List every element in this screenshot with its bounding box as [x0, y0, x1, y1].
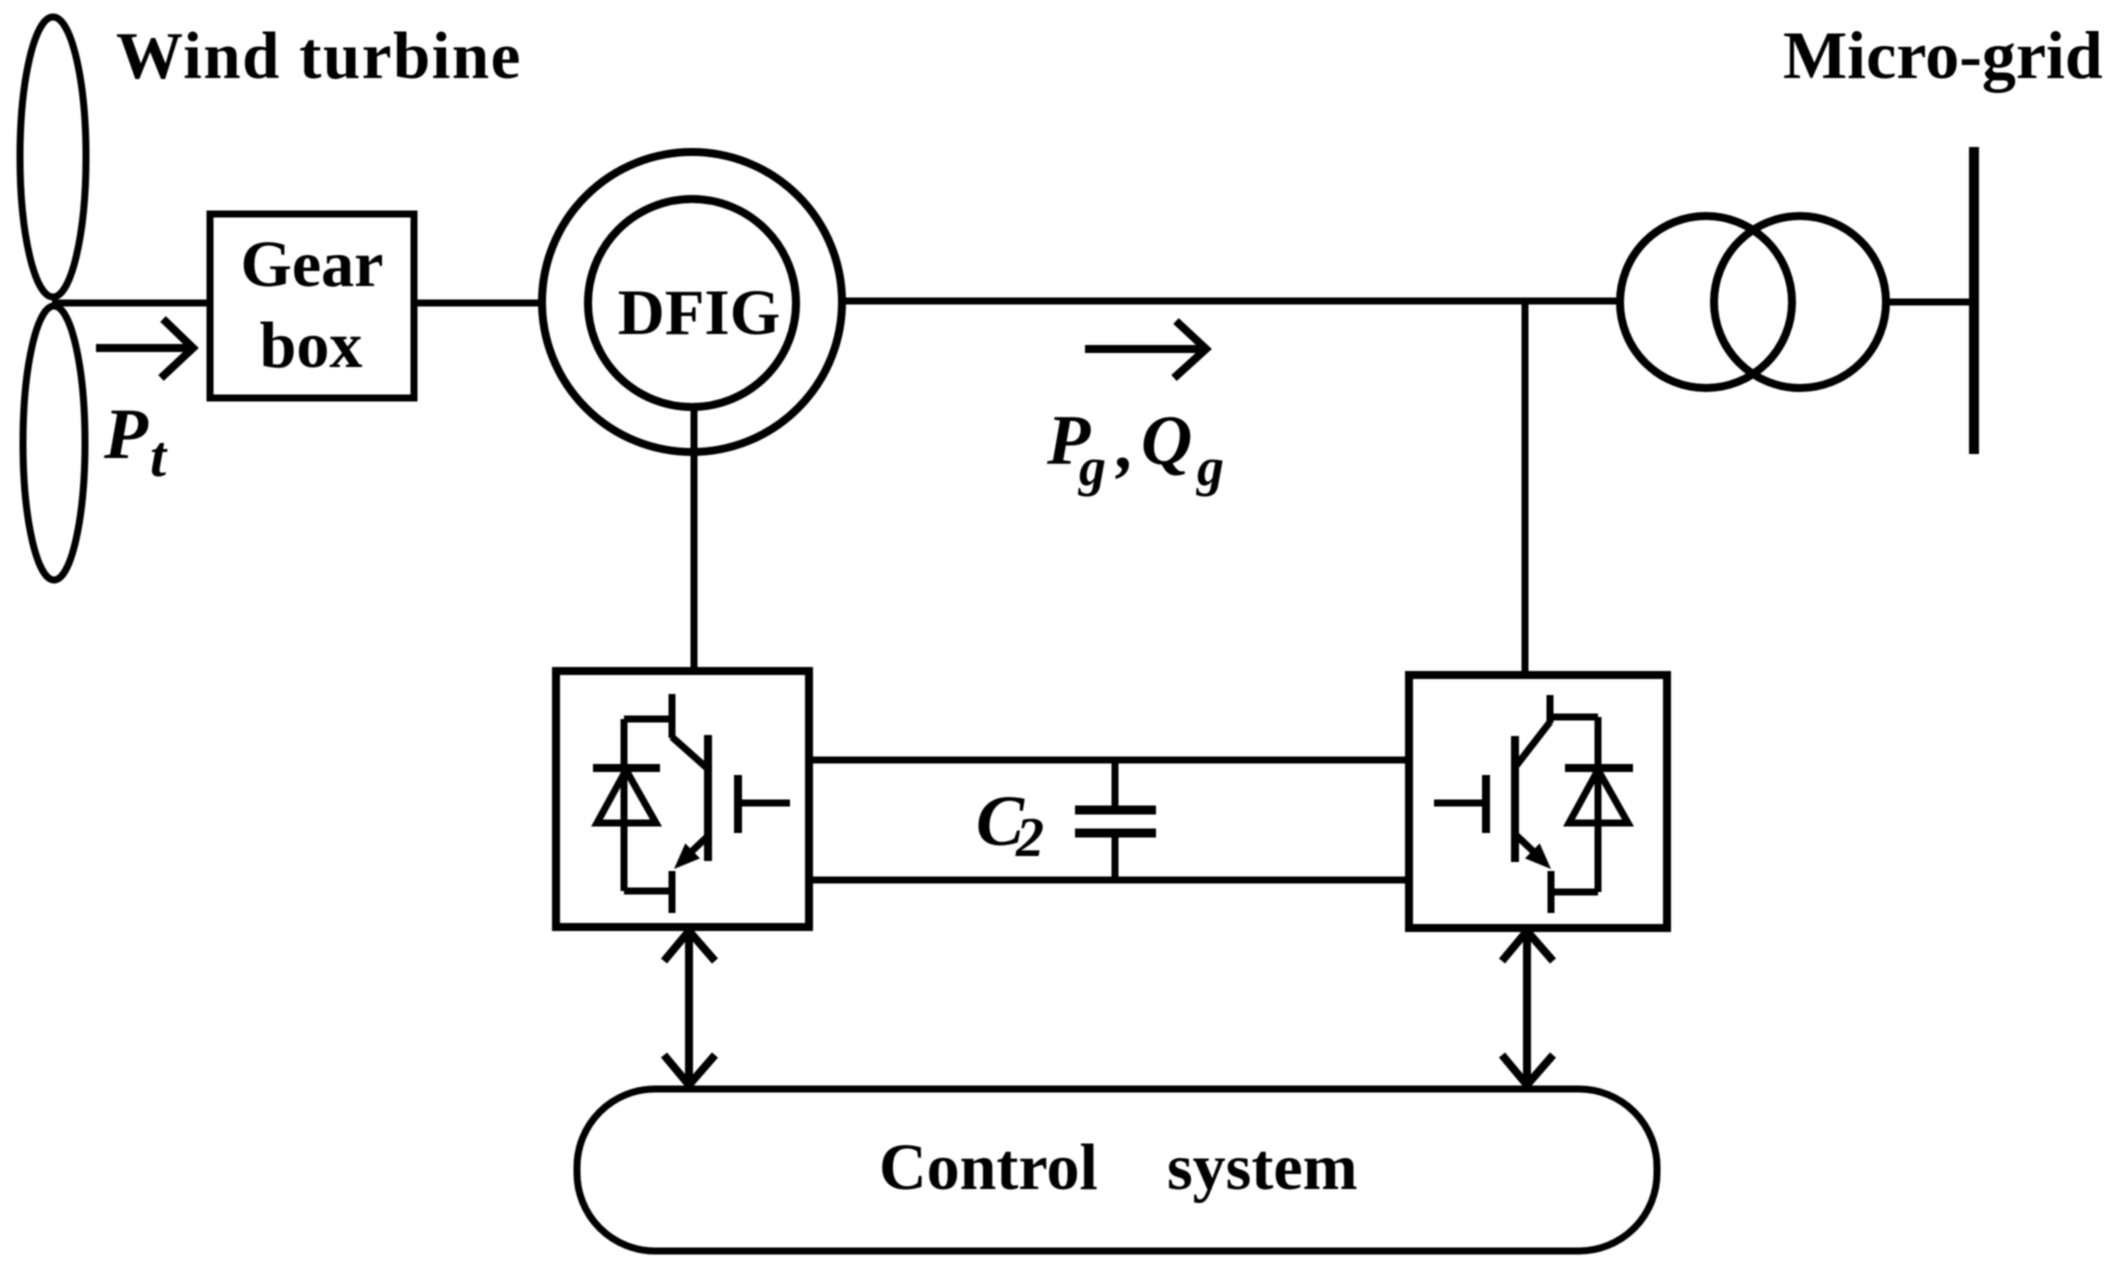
svg-text:system: system — [1167, 1131, 1358, 1204]
svg-text:Q: Q — [1141, 402, 1192, 480]
label Pg , Qg — [1046, 402, 1224, 497]
wire: transformer to micro-grid bus — [1886, 299, 1974, 306]
label C2 — [976, 781, 1044, 869]
DFIG stator outer circle — [542, 152, 842, 452]
U2 anti-parallel diode D2 — [1565, 768, 1633, 823]
svg-text:g: g — [1196, 437, 1224, 497]
svg-text:Micro-grid: Micro-grid — [1783, 17, 2103, 93]
shaft wire: gearbox to DFIG — [414, 300, 545, 307]
svg-text:,: , — [1115, 406, 1135, 484]
DC link top rail — [809, 757, 1409, 764]
label Gear box — [241, 228, 384, 382]
svg-text:Gear: Gear — [241, 228, 384, 301]
svg-text:g: g — [1078, 437, 1106, 497]
svg-text:box: box — [260, 309, 363, 382]
micro-grid bus bar — [1969, 147, 1979, 454]
svg-text:2: 2 — [1015, 807, 1044, 869]
rotor wire: DFIG down to rotor-side converter — [691, 407, 698, 674]
arrow Pt (wind power into gearbox) — [96, 319, 193, 378]
arrow Pg,Qg (power flow to grid) — [1085, 321, 1206, 378]
label Pt — [103, 394, 168, 489]
capacitor C2 — [1075, 760, 1156, 880]
wind turbine blade B2 (lower) — [23, 306, 85, 580]
U1 IGBT emitter arrowhead — [674, 843, 700, 869]
svg-text:Control: Control — [879, 1131, 1098, 1204]
shaft wire: turbine hub to gearbox — [52, 300, 210, 307]
svg-text:t: t — [150, 424, 168, 489]
U2 parallel loop wires — [1551, 717, 1598, 892]
wind turbine blade B1 (upper) — [20, 17, 86, 297]
svg-text:DFIG: DFIG — [618, 277, 781, 349]
transformer T1 primary circle — [1620, 216, 1792, 388]
DC link bottom rail — [809, 877, 1409, 884]
gearbox box — [210, 214, 414, 398]
stator wire: DFIG to transformer — [842, 298, 1624, 305]
U1 parallel loop wires — [624, 719, 672, 891]
U2 IGBT Q2 — [1434, 695, 1551, 913]
DFIG rotor inner circle — [588, 199, 796, 407]
control signal double arrow: U2 to control system — [1502, 931, 1553, 1085]
control system box — [577, 1089, 1657, 1251]
grid-side converter box U2 — [1409, 675, 1667, 928]
label Control system — [879, 1131, 1358, 1204]
U2 IGBT emitter arrowhead — [1525, 843, 1551, 869]
svg-text:Wind turbine: Wind turbine — [116, 19, 522, 93]
transformer T1 secondary circle — [1714, 216, 1886, 388]
U1 IGBT Q1 — [672, 694, 790, 913]
svg-text:P: P — [103, 394, 149, 474]
rotor-side converter box U1 — [556, 671, 809, 927]
control signal double arrow: U1 to control system — [664, 931, 715, 1085]
wire: grid junction down to grid-side converter — [1522, 301, 1529, 678]
U1 anti-parallel diode D1 — [593, 768, 660, 823]
